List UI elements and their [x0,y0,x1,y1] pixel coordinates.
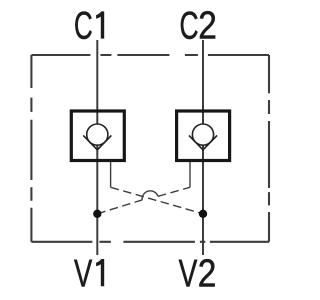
check valve CV2 ball [192,124,213,145]
svg-text:C: C [180,5,199,48]
port label C1 [74,5,104,49]
check valve CV1 seat [83,135,111,149]
pilot line A crossover hop arc [142,191,158,200]
svg-text:V: V [74,253,93,296]
pilot stub from left check valve box [110,162,112,187]
pilot stub from right check valve box [189,162,191,187]
enclosure dashed border right edge [268,55,270,242]
pilot line A crossover to right stub dashed [158,187,190,196]
port label C2 [180,3,217,48]
junction dot left [93,210,101,218]
enclosure dashed border top edge [31,54,269,56]
pilot line A left junction to crossover dashed [97,200,142,214]
check valve CV1 box [71,111,124,161]
wire C1 to V1 vertical line [96,40,98,255]
enclosure dashed border left edge [30,55,32,242]
check valve CV1 ball [87,124,108,145]
pilot line B left stub to right junction dashed [111,187,203,214]
svg-text:C: C [74,5,93,49]
wire C2 to V2 vertical line [202,40,204,255]
check valve CV2 seat [189,135,217,149]
enclosure dashed border bottom edge [31,241,269,243]
check valve CV2 box [177,111,230,161]
svg-text:V: V [179,252,198,296]
svg-text:2: 2 [198,251,217,295]
port label V2 [179,251,217,296]
svg-text:2: 2 [198,3,217,47]
port label V1 [74,253,104,296]
junction dot right [199,210,207,218]
